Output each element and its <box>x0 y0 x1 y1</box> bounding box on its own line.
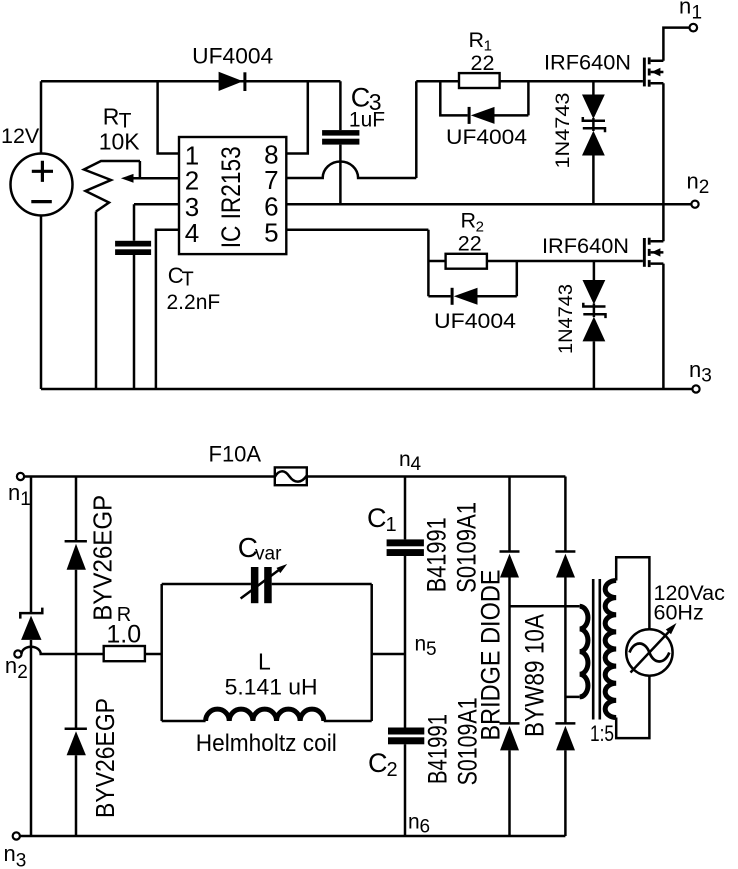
svg-text:F10A: F10A <box>209 441 262 466</box>
svg-text:5: 5 <box>264 218 278 248</box>
svg-text:5: 5 <box>426 639 437 660</box>
node n6 label <box>408 811 430 838</box>
capacitor C3 1uF <box>322 81 385 204</box>
svg-text:IRF640N: IRF640N <box>542 234 629 258</box>
svg-text:1.0: 1.0 <box>106 621 141 649</box>
diode D3 UF4004 parallel R2 <box>428 261 516 333</box>
zener pair Z1 1N4743 <box>553 81 605 204</box>
bridge right leg wire <box>564 477 567 837</box>
wire pin7 with hop over C3 column <box>286 81 416 178</box>
svg-text:10K: 10K <box>99 128 141 154</box>
diode D1 UF4004 top <box>192 44 273 91</box>
wire bottom ground rail <box>41 388 692 391</box>
transformer T1 core <box>593 579 600 720</box>
svg-text:T: T <box>182 269 194 291</box>
svg-text:2: 2 <box>387 759 398 781</box>
bridge diode top-right <box>555 552 575 578</box>
node n1 terminal bottom <box>8 473 31 510</box>
svg-text:60Hz: 60Hz <box>654 601 704 625</box>
svg-text:n: n <box>5 653 17 678</box>
svg-text:22: 22 <box>471 51 495 75</box>
svg-text:BYW89 10A: BYW89 10A <box>520 614 550 737</box>
bridge left leg wire <box>508 477 511 837</box>
svg-text:1: 1 <box>386 514 397 536</box>
capacitor C1 <box>367 502 481 593</box>
svg-text:4: 4 <box>411 454 422 475</box>
zener D6 left column <box>20 608 42 640</box>
svg-text:n: n <box>399 448 411 471</box>
voltage source V1 12V <box>1 124 73 216</box>
svg-text:2: 2 <box>17 662 28 683</box>
svg-text:n: n <box>4 841 16 866</box>
svg-text:3: 3 <box>701 366 712 387</box>
svg-text:n: n <box>679 0 691 19</box>
svg-text:22: 22 <box>458 232 482 256</box>
inductor L Helmholtz coil <box>196 648 337 757</box>
svg-text:n: n <box>689 357 701 382</box>
svg-text:1: 1 <box>692 3 703 24</box>
AC source 120Vac 60Hz <box>626 581 725 676</box>
wire secondary loop <box>616 557 649 738</box>
svg-text:1: 1 <box>20 489 31 510</box>
resistor R2 22 <box>428 209 643 269</box>
svg-text:6: 6 <box>420 817 431 838</box>
MOSFET Q2 IRF640N <box>542 204 663 389</box>
potentiometer RT 10K <box>84 103 179 389</box>
TOP-CIRCUIT <box>1 0 712 393</box>
bridge diode bottom-right <box>555 723 575 750</box>
wire BYV column <box>75 477 78 837</box>
wire pin6 to n2 <box>286 203 691 206</box>
wire capacitor column n4-n6 <box>404 477 407 837</box>
variable capacitor Cvar <box>238 532 288 603</box>
svg-text:var: var <box>255 543 282 564</box>
svg-text:2: 2 <box>699 177 710 198</box>
svg-text:BRIDGE DIODE: BRIDGE DIODE <box>476 570 506 741</box>
BOTTOM-CIRCUIT <box>4 441 726 869</box>
svg-text:L: L <box>258 648 271 674</box>
svg-text:12V: 12V <box>1 124 40 148</box>
svg-text:5.141 uH: 5.141 uH <box>225 675 318 700</box>
svg-text:IRF640N: IRF640N <box>544 51 631 75</box>
svg-text:C: C <box>368 748 388 778</box>
svg-text:UF4004: UF4004 <box>446 125 527 149</box>
fuse F1 F10A <box>209 441 307 485</box>
svg-text:C: C <box>367 503 387 533</box>
wire n5 <box>372 653 405 656</box>
wire pin8 riser <box>286 81 308 153</box>
svg-text:2: 2 <box>185 166 199 196</box>
svg-text:UF4004: UF4004 <box>434 309 516 333</box>
svg-text:n: n <box>408 811 420 834</box>
svg-text:B41991: B41991 <box>422 517 452 592</box>
node n1 terminal <box>679 0 702 31</box>
diode D4 BYV26EGP upper <box>65 495 118 621</box>
wire pin5 <box>286 230 428 297</box>
svg-text:BYV26EGP: BYV26EGP <box>90 698 120 818</box>
svg-text:Helmholtz coil: Helmholtz coil <box>196 730 337 757</box>
wire pin1 riser <box>158 81 179 153</box>
transformer T1 secondary winding <box>590 581 616 747</box>
diode D2 UF4004 parallel R1 <box>440 81 528 149</box>
IC U1 IR2153 <box>179 137 286 254</box>
bridge diode bottom-left <box>500 723 520 750</box>
wire bottom rail n3-n6 <box>20 835 566 838</box>
svg-text:3: 3 <box>16 851 27 869</box>
svg-text:BYV26EGP: BYV26EGP <box>88 495 118 621</box>
svg-text:1uF: 1uF <box>349 109 385 132</box>
node n2 terminal bottom <box>5 650 28 683</box>
svg-text:UF4004: UF4004 <box>192 44 273 69</box>
node n2 terminal <box>687 169 710 208</box>
svg-text:1N4743: 1N4743 <box>556 284 577 354</box>
svg-text:R: R <box>461 209 477 233</box>
node n5 label <box>415 633 437 661</box>
wire top rail n1-n4 <box>24 475 565 478</box>
svg-text:R: R <box>103 103 120 129</box>
tank circuit frame <box>162 584 372 721</box>
svg-text:1N4743: 1N4743 <box>553 93 574 169</box>
node n4 label <box>399 448 422 475</box>
svg-text:n: n <box>8 480 20 505</box>
svg-text:IC IR2153: IC IR2153 <box>216 146 246 248</box>
svg-text:2.2nF: 2.2nF <box>167 291 221 314</box>
MOSFET Q1 IRF640N <box>544 28 690 205</box>
svg-text:B41991: B41991 <box>422 714 452 784</box>
svg-text:4: 4 <box>185 218 199 248</box>
resistor R1 22 <box>416 28 643 88</box>
wire left column n1-n3 <box>30 477 33 837</box>
bridge diode top-left <box>500 552 520 578</box>
zener pair Z2 1N4743 <box>556 261 606 389</box>
capacitor C2 <box>368 697 482 785</box>
transformer T1 primary winding <box>510 606 588 697</box>
node n3 terminal <box>689 357 712 393</box>
svg-text:n: n <box>415 633 427 656</box>
capacitor CT 2.2nF <box>115 204 220 389</box>
wire pin4 <box>156 230 179 389</box>
svg-text:1:5: 1:5 <box>590 721 614 746</box>
node n3 terminal bottom <box>4 832 27 869</box>
svg-text:R: R <box>469 28 485 52</box>
svg-text:7: 7 <box>264 165 278 195</box>
svg-text:n: n <box>687 169 699 194</box>
diode D5 BYV26EGP lower <box>65 698 120 818</box>
wire n2 with hop over left column <box>22 647 162 654</box>
wire top rail <box>41 81 340 389</box>
resistor R 1.0 <box>104 604 145 661</box>
